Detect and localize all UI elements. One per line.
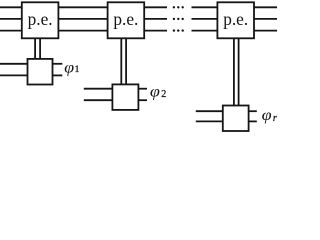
svg-text:r: r [273,113,277,124]
svg-text:φ: φ [64,59,74,76]
p.e. box 2 [108,2,145,38]
small box 2 input line b [84,99,113,101]
ellipsis dots row 3 [173,29,184,31]
small box 2 output stub b [138,99,147,101]
vertical pair from p.e. box 2 [121,38,126,84]
vertical pair from p.e. box 1 [35,38,40,59]
svg-text:2: 2 [161,89,166,100]
svg-text:p.e.: p.e. [113,9,138,29]
svg-text:p.e.: p.e. [28,9,53,29]
small box 1 output stub b [53,74,63,76]
small box 2 input line a [84,88,113,90]
small box 3 output stub a [249,110,257,112]
small box 1 output stub a [53,63,63,65]
small box 1 input line a [0,63,28,65]
small box 2 output stub a [138,88,147,90]
small box 2 [112,84,138,110]
bus line 3 left segment [0,30,167,32]
bus line 2 left segment [0,18,167,20]
svg-text:φ: φ [262,107,272,124]
svg-text:φ: φ [150,84,160,101]
bus line 1 right segment [192,6,278,8]
vertical pair from p.e. box 3 [234,38,239,105]
svg-text:1: 1 [75,65,80,75]
p.e. box 3 [217,2,254,38]
bus line 1 left segment [0,6,167,8]
svg-text:p.e.: p.e. [223,9,248,29]
small box 3 [223,106,249,132]
ellipsis dots row 1 [173,6,184,8]
small box 1 input line b [0,74,28,76]
ellipsis dots row 2 [173,18,184,20]
small box 3 input line b [196,120,223,122]
p.e. box 1 [22,2,59,38]
small box 3 output stub b [249,120,257,122]
small box 1 [28,59,53,85]
bus line 2 right segment [192,18,278,20]
bus line 3 right segment [192,30,278,32]
small box 3 input line a [196,110,223,112]
